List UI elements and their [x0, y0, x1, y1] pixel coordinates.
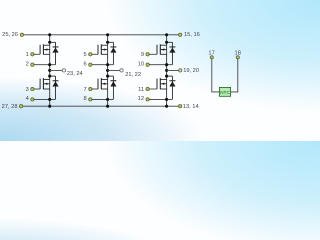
pin 2 wire (source): [34, 64, 56, 66]
pin 11 wire (gate): [149, 88, 157, 90]
pin 11 terminal: [138, 87, 149, 93]
transistor Q2: [40, 78, 50, 89]
DC+ right terminal 15,16: [179, 32, 200, 38]
source junction: [165, 98, 168, 101]
source junction: [106, 63, 109, 66]
output terminal 21, 22: [120, 69, 141, 78]
phase leg 2 vertical wire: [107, 35, 109, 106]
svg-text:15, 16: 15, 16: [184, 32, 200, 38]
output wire leg 2: [108, 69, 120, 71]
DC- bottom rail wire: [23, 105, 179, 107]
svg-text:5: 5: [84, 52, 87, 58]
drain junction: [165, 75, 168, 78]
source junction: [48, 63, 51, 66]
pin 6 terminal: [84, 61, 92, 67]
pin 7 wire (gate): [92, 88, 98, 90]
svg-text:2: 2: [26, 61, 29, 67]
svg-text:6: 6: [84, 61, 87, 67]
pin 8 terminal: [84, 96, 92, 102]
DC+ top rail wire: [23, 34, 179, 36]
svg-text:19, 20: 19, 20: [183, 68, 199, 74]
phase leg 3 vertical wire: [166, 35, 168, 106]
pin 9 terminal: [141, 52, 149, 58]
output node junction leg 3: [165, 69, 168, 72]
top rail junction leg 3: [165, 33, 168, 36]
output node junction leg 2: [106, 69, 109, 72]
pin 17 terminal: [208, 51, 214, 59]
drain junction: [165, 41, 168, 44]
transistor Q5: [157, 44, 167, 54]
phase leg 1 vertical wire: [49, 35, 51, 106]
pin 12 terminal: [138, 96, 150, 102]
svg-text:NTC: NTC: [220, 90, 230, 96]
NTC thermistor R_NTC: [219, 87, 230, 96]
pin 1 wire (gate): [34, 53, 40, 55]
drain junction: [106, 75, 109, 78]
pin 4 wire (source): [34, 98, 56, 100]
output terminal 19, 20: [179, 68, 199, 74]
pin 5 terminal: [84, 52, 92, 58]
pin 7 terminal: [84, 87, 92, 93]
svg-text:8: 8: [84, 96, 87, 102]
pin 18 wire: [231, 59, 238, 92]
source junction: [165, 63, 168, 66]
DC- left terminal 27,28: [2, 104, 23, 110]
svg-text:11: 11: [138, 87, 144, 93]
svg-text:3: 3: [26, 87, 29, 93]
transistor Q4: [98, 78, 108, 89]
body diode D4: [108, 76, 117, 99]
pin 17 wire: [212, 59, 219, 92]
svg-text:1: 1: [26, 52, 29, 58]
pin 12 wire (source): [149, 98, 172, 100]
svg-text:10: 10: [138, 61, 144, 67]
pin 9 wire (gate): [149, 53, 157, 55]
output terminal 23, 24: [62, 69, 82, 77]
svg-text:9: 9: [141, 52, 144, 58]
pin 3 wire (gate): [34, 88, 40, 90]
pin 3 terminal: [26, 87, 34, 93]
svg-text:13, 14: 13, 14: [183, 104, 199, 110]
output wire leg 3: [167, 69, 179, 71]
svg-text:4: 4: [26, 96, 29, 102]
DC- right terminal 13,14: [179, 104, 199, 110]
svg-text:21, 22: 21, 22: [125, 72, 141, 78]
transistor Q1: [40, 44, 50, 54]
svg-text:25, 26: 25, 26: [2, 32, 18, 38]
output wire leg 1: [50, 69, 63, 71]
pin 10 terminal: [138, 61, 150, 67]
pin 18 terminal: [235, 51, 241, 59]
svg-text:7: 7: [84, 87, 87, 93]
svg-text:23, 24: 23, 24: [67, 71, 83, 77]
svg-text:27, 28: 27, 28: [2, 104, 18, 110]
pin 4 terminal: [26, 96, 34, 102]
body diode D5: [167, 42, 176, 64]
drain junction: [48, 41, 51, 44]
svg-text:12: 12: [138, 96, 144, 102]
DC+ left terminal 25,26: [2, 32, 23, 38]
output node junction leg 1: [48, 69, 51, 72]
bottom rail junction leg 3: [165, 105, 168, 108]
body diode D1: [50, 42, 59, 64]
source junction: [48, 98, 51, 101]
top rail junction leg 1: [48, 33, 51, 36]
pin 8 wire (source): [92, 98, 114, 100]
source junction: [106, 98, 109, 101]
body diode D6: [167, 76, 176, 99]
body diode D2: [50, 76, 59, 99]
bottom rail junction leg 1: [48, 105, 51, 108]
pin 2 terminal: [26, 61, 34, 67]
drain junction: [48, 75, 51, 78]
bottom rail junction leg 2: [106, 105, 109, 108]
drain junction: [106, 41, 109, 44]
pin 6 wire (source): [92, 64, 114, 66]
pin 10 wire (source): [149, 64, 172, 66]
transistor Q3: [98, 44, 108, 54]
transistor Q6: [157, 78, 167, 89]
pin 1 terminal: [26, 52, 34, 58]
body diode D3: [108, 42, 117, 64]
top rail junction leg 2: [106, 33, 109, 36]
pin 5 wire (gate): [92, 53, 98, 55]
